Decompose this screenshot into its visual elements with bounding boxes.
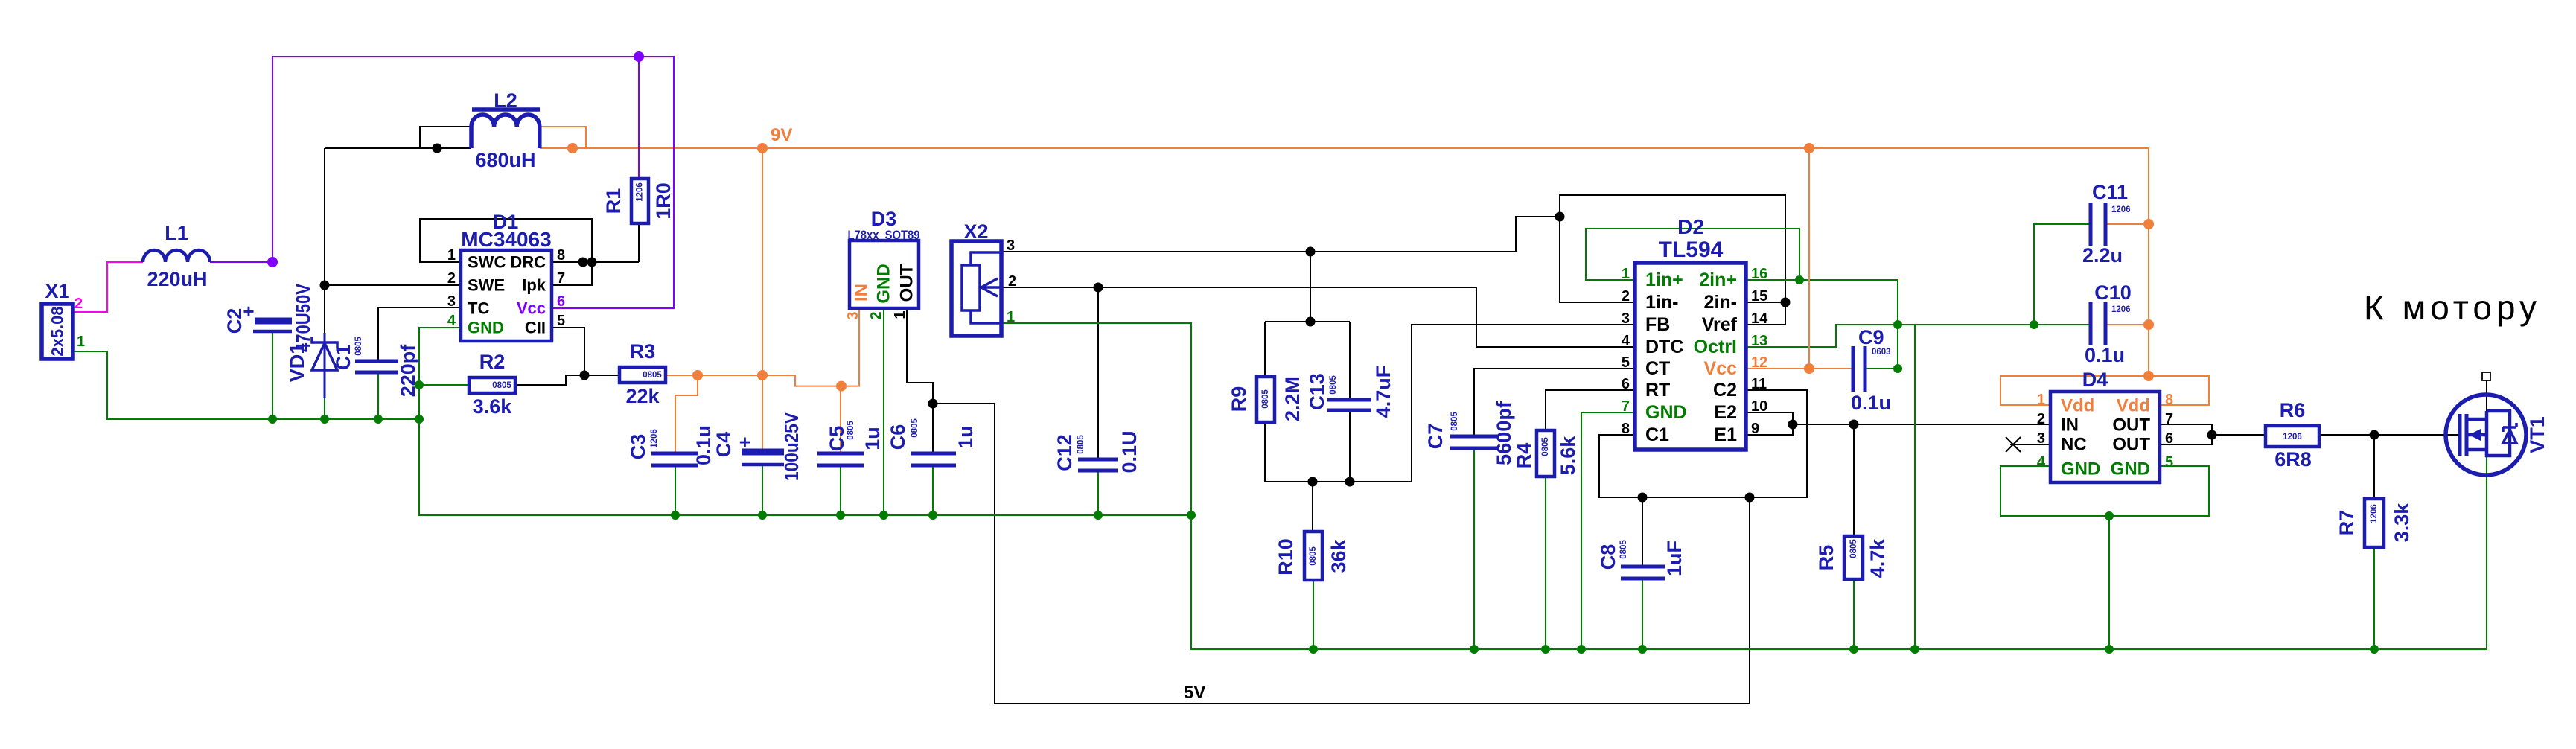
svg-text:2: 2 [868,311,884,319]
svg-text:0805: 0805 [1619,540,1628,559]
svg-text:0.1u: 0.1u [1851,392,1891,414]
svg-text:0805: 0805 [354,337,363,356]
svg-text:CT: CT [1645,358,1670,379]
svg-text:10: 10 [1751,398,1767,415]
svg-text:1206: 1206 [2283,433,2302,442]
svg-text:R3: R3 [630,340,656,363]
svg-text:0805: 0805 [492,381,511,390]
svg-text:1: 1 [2037,392,2045,408]
svg-text:R1: R1 [602,188,625,214]
svg-text:22k: 22k [625,385,660,407]
svg-text:2: 2 [2037,411,2045,427]
svg-text:C12: C12 [1053,434,1076,471]
svg-text:C7: C7 [1424,424,1447,450]
svg-text:8: 8 [557,247,565,264]
svg-text:1: 1 [1622,266,1630,282]
svg-text:0805: 0805 [1261,389,1270,409]
svg-text:1206: 1206 [2111,305,2131,314]
svg-text:5V: 5V [1184,683,1205,703]
svg-text:R4: R4 [1513,443,1535,469]
svg-text:C10: C10 [2094,281,2132,304]
svg-text:C4: C4 [712,432,735,458]
svg-text:Vdd: Vdd [2117,396,2150,416]
svg-text:GND: GND [468,319,504,337]
svg-text:5600pf: 5600pf [1493,401,1515,465]
svg-text:13: 13 [1751,333,1767,349]
svg-text:L1: L1 [165,222,188,244]
svg-text:X1: X1 [45,280,69,302]
svg-text:2in-: 2in- [1704,292,1737,313]
svg-text:4.7k: 4.7k [1866,538,1889,579]
svg-text:R10: R10 [1275,538,1297,576]
svg-text:TC: TC [468,299,489,318]
svg-text:R7: R7 [2336,510,2358,536]
svg-text:GND: GND [874,264,894,303]
svg-text:0603: 0603 [1872,348,1891,357]
svg-text:D3: D3 [871,208,897,230]
svg-text:C2: C2 [1713,380,1737,401]
svg-text:Vdd: Vdd [2061,396,2094,416]
svg-text:2x5.08: 2x5.08 [48,306,67,356]
svg-text:2: 2 [1008,273,1016,290]
svg-text:GND: GND [1645,402,1687,423]
svg-text:SWE: SWE [468,276,505,295]
svg-text:+: + [733,436,756,447]
svg-text:3: 3 [2037,430,2045,447]
svg-text:OUT: OUT [2112,435,2150,455]
svg-text:6R8: 6R8 [2274,448,2312,471]
svg-text:680uH: 680uH [475,149,535,171]
svg-text:E2: E2 [1714,402,1737,423]
svg-text:8: 8 [1622,421,1630,437]
svg-text:E1: E1 [1714,424,1737,445]
svg-text:0805: 0805 [847,421,855,440]
svg-text:2: 2 [447,270,456,287]
svg-text:2: 2 [74,296,83,312]
svg-text:0.1U: 0.1U [1118,430,1141,473]
svg-text:D2: D2 [1677,215,1704,238]
svg-text:TL594: TL594 [1659,238,1724,262]
svg-text:5: 5 [1622,354,1630,371]
svg-text:0805: 0805 [1541,437,1550,456]
svg-text:1R0: 1R0 [652,182,675,220]
svg-text:Vref: Vref [1702,314,1738,335]
svg-text:RT: RT [1645,380,1670,401]
svg-text:2.2u: 2.2u [2082,244,2123,267]
svg-text:R5: R5 [1815,545,1837,571]
svg-text:7: 7 [557,270,565,287]
svg-text:11: 11 [1751,376,1767,392]
svg-text:FB: FB [1645,314,1670,335]
svg-text:NC: NC [2061,435,2087,455]
svg-text:36k: 36k [1327,538,1350,573]
svg-text:2.2M: 2.2M [1281,377,1304,421]
svg-text:15: 15 [1751,288,1767,305]
svg-text:D4: D4 [2082,369,2108,391]
svg-text:3: 3 [1007,238,1015,254]
svg-text:DRC: DRC [510,253,546,272]
svg-text:C13: C13 [1306,373,1328,410]
svg-text:3.3k: 3.3k [2391,503,2413,543]
svg-text:C1: C1 [1645,424,1669,445]
svg-text:1206: 1206 [2111,205,2131,214]
svg-text:2in+: 2in+ [1699,270,1737,290]
svg-text:CII: CII [525,319,546,337]
svg-text:1: 1 [77,334,85,350]
svg-text:4: 4 [447,313,456,329]
svg-text:14: 14 [1751,310,1768,327]
svg-text:DTC: DTC [1645,337,1683,357]
svg-text:1206: 1206 [2370,504,2379,523]
svg-text:IN: IN [2061,415,2079,436]
svg-text:C3: C3 [627,434,649,460]
svg-text:1: 1 [447,247,456,264]
svg-text:3: 3 [845,311,861,319]
svg-text:IN: IN [852,284,872,302]
svg-text:1in+: 1in+ [1645,270,1683,290]
svg-text:К мотору: К мотору [2364,288,2541,327]
svg-text:MC34063: MC34063 [461,228,551,251]
svg-text:Ipk: Ipk [522,276,546,295]
svg-text:100u25V: 100u25V [780,412,803,481]
svg-text:C11: C11 [2092,181,2128,203]
svg-text:R6: R6 [2280,399,2306,421]
svg-text:1uF: 1uF [1663,541,1686,576]
svg-text:OUT: OUT [897,264,917,302]
svg-text:16: 16 [1751,266,1767,282]
svg-text:R9: R9 [1228,386,1250,412]
svg-text:0805: 0805 [911,418,919,438]
svg-text:470U50V: 470U50V [292,283,314,352]
svg-text:1206: 1206 [636,182,645,202]
svg-text:0805: 0805 [1329,375,1338,395]
svg-text:1206: 1206 [650,429,659,448]
svg-text:4.7uF: 4.7uF [1372,366,1394,418]
svg-text:1in-: 1in- [1645,292,1678,313]
svg-text:0805: 0805 [1077,435,1085,454]
svg-text:C1: C1 [332,345,354,371]
svg-text:3: 3 [1622,310,1630,327]
svg-text:7: 7 [1622,398,1630,415]
svg-text:SWC: SWC [468,253,506,272]
svg-text:220uH: 220uH [147,268,207,290]
svg-text:0805: 0805 [1450,412,1459,431]
svg-text:Vcc: Vcc [517,299,546,318]
svg-text:1: 1 [892,310,908,319]
svg-text:4: 4 [1622,333,1630,349]
svg-text:GND: GND [2061,459,2100,479]
svg-text:1u: 1u [954,425,977,449]
svg-text:C8: C8 [1597,544,1619,570]
svg-text:1u: 1u [861,427,884,450]
svg-text:3: 3 [447,293,456,310]
svg-text:2: 2 [1622,288,1630,305]
svg-text:0.1u: 0.1u [2085,344,2125,366]
svg-text:6: 6 [2165,430,2173,447]
svg-text:9V: 9V [771,125,792,145]
svg-text:5: 5 [557,313,565,329]
svg-text:L2: L2 [494,89,517,112]
svg-text:C5: C5 [826,426,848,452]
svg-text:L78xx_SOT89: L78xx_SOT89 [848,228,920,242]
svg-text:X2: X2 [963,220,988,243]
svg-text:Vcc: Vcc [1704,358,1738,379]
svg-text:GND: GND [2111,459,2150,479]
svg-text:0805: 0805 [643,371,662,380]
svg-text:5: 5 [2165,454,2173,471]
svg-text:R2: R2 [479,351,506,373]
svg-text:C6: C6 [887,424,909,450]
svg-text:VT1: VT1 [2526,416,2548,453]
svg-text:0805: 0805 [1309,546,1318,566]
svg-text:12: 12 [1751,354,1767,371]
svg-text:5.6k: 5.6k [1557,436,1579,476]
svg-text:220pf: 220pf [397,344,419,398]
svg-text:6: 6 [557,293,565,310]
svg-text:6: 6 [1622,376,1630,392]
svg-text:4: 4 [2037,454,2046,471]
svg-text:3.6k: 3.6k [473,395,513,418]
svg-text:0.1u: 0.1u [692,425,715,465]
svg-text:9: 9 [1751,421,1759,437]
svg-text:C9: C9 [1858,326,1884,348]
svg-text:C2: C2 [223,308,246,334]
svg-text:8: 8 [2165,392,2173,408]
svg-text:1: 1 [1007,309,1015,325]
svg-text:7: 7 [2165,411,2173,427]
svg-text:0805: 0805 [1849,539,1858,558]
svg-text:OUT: OUT [2112,415,2150,436]
svg-text:Octrl: Octrl [1694,337,1737,357]
